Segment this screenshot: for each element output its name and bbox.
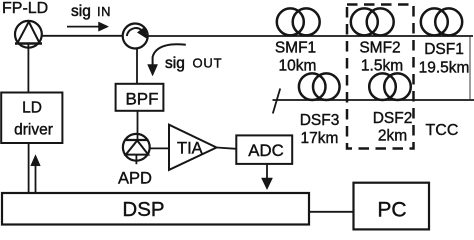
svg-text:IN: IN — [97, 4, 111, 19]
svg-text:SMF1: SMF1 — [275, 39, 316, 56]
svg-text:17km: 17km — [301, 130, 339, 147]
wire DSP to PC — [309, 211, 354, 213]
BPF box — [116, 84, 164, 111]
sig OUT curved arrow — [148, 44, 186, 76]
svg-text:TIA: TIA — [177, 140, 203, 158]
svg-text:DSP: DSP — [122, 198, 164, 221]
dashed box around SMF2 / DSF2 (TCC) — [347, 5, 414, 149]
fiber coil DSF3 — [299, 73, 340, 100]
main fiber wire: circulator to right edge — [148, 35, 473, 37]
svg-text:SMF2: SMF2 — [359, 39, 400, 56]
wire right-edge vertical connector — [469, 37, 471, 99]
fiber break slash — [273, 89, 280, 114]
LD driver box — [1, 93, 62, 144]
svg-text:ADC: ADC — [248, 141, 283, 160]
amplifier TIA — [169, 125, 217, 170]
svg-text:APD: APD — [118, 170, 152, 188]
wire TIA to ADC — [217, 148, 237, 149]
wire APD to TIA — [150, 147, 169, 149]
svg-text:OUT: OUT — [193, 56, 223, 71]
wire FP-LD to LD driver — [27, 44, 29, 93]
PC box — [354, 183, 430, 230]
svg-text:driver: driver — [14, 122, 53, 139]
fiber coil SMF2 — [351, 8, 394, 35]
svg-text:19.5km: 19.5km — [419, 60, 470, 77]
circulator — [123, 24, 148, 49]
laser diode FP-LD — [15, 21, 42, 48]
svg-text:10km: 10km — [279, 58, 317, 75]
wire LD driver to DSP — [28, 143, 30, 193]
wire BPF to APD — [137, 111, 139, 140]
fiber coil DSF1 — [421, 8, 462, 35]
svg-text:PC: PC — [377, 199, 406, 222]
svg-text:2km: 2km — [378, 128, 407, 145]
svg-text:DSF2: DSF2 — [373, 110, 413, 127]
fiber coil SMF1 — [277, 8, 320, 35]
wire FP-LD to circulator — [42, 35, 123, 37]
ADC box — [236, 135, 292, 164]
svg-text:DSF1: DSF1 — [424, 41, 464, 58]
svg-text:1.5km: 1.5km — [361, 58, 403, 75]
svg-text:FP-LD: FP-LD — [2, 0, 48, 17]
up arrow DSP to LD driver — [31, 155, 41, 193]
second row fiber wire — [273, 99, 474, 101]
svg-text:sig: sig — [71, 3, 91, 20]
svg-text:LD: LD — [22, 100, 42, 117]
svg-text:DSF3: DSF3 — [300, 112, 340, 129]
svg-text:TCC: TCC — [426, 122, 459, 139]
fiber coil DSF2 — [369, 73, 411, 100]
svg-text:sig: sig — [165, 55, 185, 72]
DSP box — [2, 193, 309, 225]
wire circulator to BPF — [136, 49, 138, 85]
sig IN arrow — [67, 22, 109, 31]
arrow ADC to DSP — [262, 164, 273, 190]
photodiode APD — [123, 134, 150, 164]
svg-text:BPF: BPF — [125, 90, 158, 109]
